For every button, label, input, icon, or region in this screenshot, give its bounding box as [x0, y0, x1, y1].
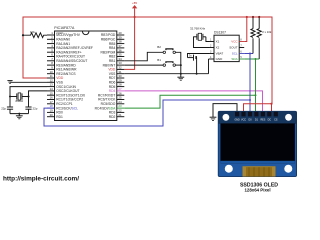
svg-text:http://simple-circuit.com/: http://simple-circuit.com/: [3, 176, 79, 183]
pin 24 stub (right): [117, 103, 125, 105]
pin 40 stub (right): [117, 34, 125, 36]
wire: VSS pin 31 ground bus (right): [124, 73, 208, 75]
svg-text:10k: 10k: [30, 30, 35, 34]
pin 30 stub (right): [117, 77, 125, 79]
pin 15 stub (left): [47, 94, 55, 96]
wire: +5V drop to VDD pin 32 (red): [124, 17, 134, 69]
pin 1 stub (left): [47, 34, 55, 36]
pin 32 stub (right): [117, 68, 125, 70]
svg-text:B2: B2: [157, 45, 161, 49]
DS1307 pin stubs left: [209, 41, 214, 43]
pin 18 stub (left): [47, 107, 55, 109]
pin 31 stub (right): [117, 73, 125, 75]
svg-text:VCC: VCC: [241, 119, 246, 122]
svg-text:RD2: RD2: [109, 115, 116, 119]
resistor R2 10k pull-up (SCL): [251, 17, 255, 54]
pin 12 stub (left): [47, 81, 55, 83]
junction dot rail/+5V: [134, 16, 136, 18]
pin 2 stub (left): [47, 38, 55, 40]
pin 25 stub (right): [117, 99, 125, 101]
screen bottom glass edge: [220, 161, 295, 163]
junction dot cap bus: [18, 113, 20, 115]
flex connector contacts: [243, 166, 276, 176]
junction dot battery negative/ground bus: [196, 73, 198, 75]
pin 16 stub (left): [47, 99, 55, 101]
pin 36 stub (right): [117, 51, 125, 53]
wire: SCL vertical down to OLED D0 (blue): [249, 54, 251, 114]
svg-text:32.768 KHz: 32.768 KHz: [190, 27, 206, 31]
svg-text:X2: X2: [216, 46, 220, 50]
junction dot DC/VCC tee: [270, 103, 272, 105]
pin 4 stub (left): [47, 47, 55, 49]
pin 21 stub (right): [117, 116, 125, 118]
wire: battery to VBAT pin: [188, 54, 210, 58]
pin 38 stub (right): [117, 43, 125, 45]
svg-text:22p: 22p: [1, 106, 6, 110]
pin 28 stub (right): [117, 86, 125, 88]
junction dot rail/resistor R1: [22, 34, 24, 36]
wire: B1 to RB0 pin 33: [124, 64, 163, 66]
svg-text:B1: B1: [157, 58, 161, 62]
wire: SDA vertical down to OLED D1 (green): [255, 59, 257, 114]
header pin labels: [234, 119, 277, 122]
svg-text:GND: GND: [234, 119, 240, 122]
pin 9 stub (left): [47, 68, 55, 70]
PIC16F877A IC body U1: [54, 26, 117, 121]
crystal X2 32.768 KHz: [190, 27, 206, 41]
wire: magenta reset from RD4 pin 27: [124, 91, 262, 114]
junction dot SDA bus join: [255, 94, 257, 96]
module PCB body: [218, 111, 296, 176]
pin 34 stub (right): [117, 60, 125, 62]
wire: VSS pin 12 to ground g1: [10, 81, 47, 83]
pin 27 stub (right): [117, 90, 125, 92]
junction dot B1/ground drop: [180, 64, 182, 66]
svg-text:CS: CS: [274, 119, 278, 122]
capacitor C2 22p: [25, 106, 37, 113]
wire: B2 right to ground drop: [175, 52, 180, 73]
wire: crystal left lead to X2 pin: [194, 37, 210, 48]
wire: DS1307 SDA to pull-up / OLED (green): [244, 58, 259, 60]
pin 11 stub (left): [47, 77, 55, 79]
wire: red right rail to OLED DC and VCC: [244, 104, 273, 114]
ground symbol g3 (buttons / VSS): [177, 74, 184, 81]
svg-text:SDA: SDA: [231, 57, 237, 61]
svg-text:PIC16F877A: PIC16F877A: [54, 26, 75, 30]
junction dot crystal left: [9, 96, 11, 98]
push button B2: [157, 45, 175, 53]
mounting holes: [223, 114, 230, 121]
wire: DS1307 SCL to pull-up / OLED (blue): [244, 53, 253, 55]
wire: OSC1 pin 13 to crystal left node: [10, 87, 47, 107]
pin 35 stub (right): [117, 56, 125, 58]
wire: DS1307 VCC red up to +5V rail: [244, 17, 247, 42]
junction dot crystal right: [28, 96, 30, 98]
junction dot SCL bus join: [249, 99, 251, 101]
pin 17 stub (left): [47, 103, 55, 105]
junction dot SDA tee: [255, 58, 257, 60]
wire: OLED GND black: [213, 104, 237, 118]
wire: DS GND pin into drop: [208, 58, 211, 60]
+5V power symbol: [132, 1, 137, 17]
wire: crystal right lead to X1 pin: [206, 37, 209, 42]
pin 7 stub (left): [47, 60, 55, 62]
DS1307 pin stubs right: [239, 41, 244, 43]
junction dot R2 top: [252, 16, 254, 18]
junction dot ground drop/bus: [180, 73, 182, 75]
header pin pads: [235, 112, 278, 117]
svg-text:RD1: RD1: [56, 115, 63, 119]
screen: [220, 123, 295, 163]
wire: red rail down-left to VDD pin 11: [23, 35, 47, 78]
svg-text:DC: DC: [268, 119, 272, 122]
+5V power rail (top red wire): [23, 17, 272, 104]
pin 37 stub (right): [117, 47, 125, 49]
pin 29 stub (right): [117, 81, 125, 83]
svg-text:8MHz: 8MHz: [15, 99, 23, 103]
junction dot SCL tee: [249, 53, 251, 55]
svg-text:X1: X1: [216, 40, 220, 44]
wire: OSC2 pin 14 to crystal right node: [29, 91, 48, 107]
svg-text:GND: GND: [216, 57, 224, 61]
svg-text:RES: RES: [260, 119, 265, 122]
pin 13 stub (left): [47, 86, 55, 88]
SSD1306 OLED module: [218, 111, 296, 176]
pin 3 stub (left): [47, 43, 55, 45]
pin 39 stub (right): [117, 38, 125, 40]
wire: blue SCL from RC3 pin 18 loop under IC: [44, 100, 250, 126]
pin 33 stub (right): [117, 64, 125, 66]
battery BT1 3v: [188, 53, 197, 73]
junction dot VCC rail: [246, 16, 248, 18]
pin 14 stub (left): [47, 90, 55, 92]
svg-text:SCL: SCL: [232, 52, 238, 56]
resistor R3 10k pull-up (SDA): [257, 17, 261, 59]
pin 19 stub (left): [47, 111, 55, 113]
ground symbol g1 (VSS pin 12): [7, 81, 12, 84]
wire: B1 right to ground drop: [175, 64, 180, 66]
svg-text:2 x 10k: 2 x 10k: [262, 30, 272, 34]
svg-text:20: 20: [50, 113, 54, 117]
svg-text:21: 21: [118, 113, 122, 117]
crystal X1 8MHz: [10, 93, 29, 103]
wire: DS GND pin down to ground bus: [208, 59, 210, 74]
pin 6 stub (left): [47, 56, 55, 58]
wire: DC drop (red): [271, 104, 273, 114]
header strip dark: [218, 111, 296, 124]
push button B1: [157, 58, 175, 66]
pin 5 stub (left): [47, 51, 55, 53]
pin 8 stub (left): [47, 64, 55, 66]
DS1307 pin numbers: [210, 39, 242, 60]
pin 26 stub (right): [117, 94, 125, 96]
svg-text:+5V: +5V: [132, 1, 137, 5]
junction dot R3 top: [258, 16, 260, 18]
pin 20 stub (left): [47, 116, 55, 118]
pin 23 stub (right): [117, 107, 125, 109]
wire: capacitor ground bus: [10, 113, 29, 115]
capacitor C1 22p: [1, 106, 13, 113]
svg-text:VBAT: VBAT: [216, 52, 224, 56]
svg-text:VCC: VCC: [231, 40, 238, 44]
wire: green SDA from RC4 pin 23: [124, 95, 255, 108]
svg-text:22p: 22p: [33, 106, 38, 110]
wire: B2 to RB1 pin 34: [124, 52, 163, 61]
DS1307 RTC U2: [214, 30, 239, 61]
ground symbol g2 (crystal): [16, 114, 23, 119]
svg-text:128x64 Pixel: 128x64 Pixel: [244, 187, 270, 192]
resistor R1 10k (MCLR pull-up): [23, 30, 47, 38]
ground symbol g4 (OLED): [210, 117, 217, 120]
pin 22 stub (right): [117, 111, 125, 113]
svg-text:DS1307: DS1307: [214, 30, 226, 34]
pin 10 stub (left): [47, 73, 55, 75]
svg-text:SOUT: SOUT: [229, 46, 238, 50]
